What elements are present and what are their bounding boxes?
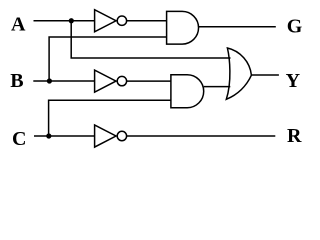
AND gate G1 — [167, 11, 199, 44]
wire A branch to OR gate top input — [71, 21, 230, 58]
wire U3 output to R — [127, 135, 276, 137]
inverter U1 (NOT A) — [95, 10, 116, 32]
wire C branch to AND G2 lower input — [49, 100, 171, 136]
wire B branch to AND G1 lower input — [49, 37, 167, 81]
svg-text:A: A — [11, 14, 26, 36]
svg-text:Y: Y — [286, 70, 301, 92]
inverter U3 (NOT C) — [95, 125, 116, 147]
wire G3 output to Y — [251, 74, 279, 76]
inverter U2 (NOT B) — [95, 70, 116, 92]
wire B input — [33, 80, 94, 82]
wire U1 output to AND G1 — [127, 20, 167, 22]
AND gate G2 — [171, 75, 204, 108]
wire G1 output to G — [199, 26, 276, 28]
svg-text:B: B — [10, 70, 23, 92]
svg-text:G: G — [287, 16, 303, 38]
wire A input — [34, 20, 95, 22]
node B junction — [47, 78, 52, 83]
node C junction — [46, 133, 51, 138]
wire C input — [34, 135, 95, 137]
svg-text:C: C — [12, 128, 26, 150]
or-gate G3 — [226, 48, 251, 99]
svg-text:R: R — [287, 125, 302, 147]
node A junction — [69, 18, 74, 23]
wire U2 output to AND G2 — [127, 80, 171, 82]
wire G2 output to OR gate lower input — [204, 86, 231, 88]
